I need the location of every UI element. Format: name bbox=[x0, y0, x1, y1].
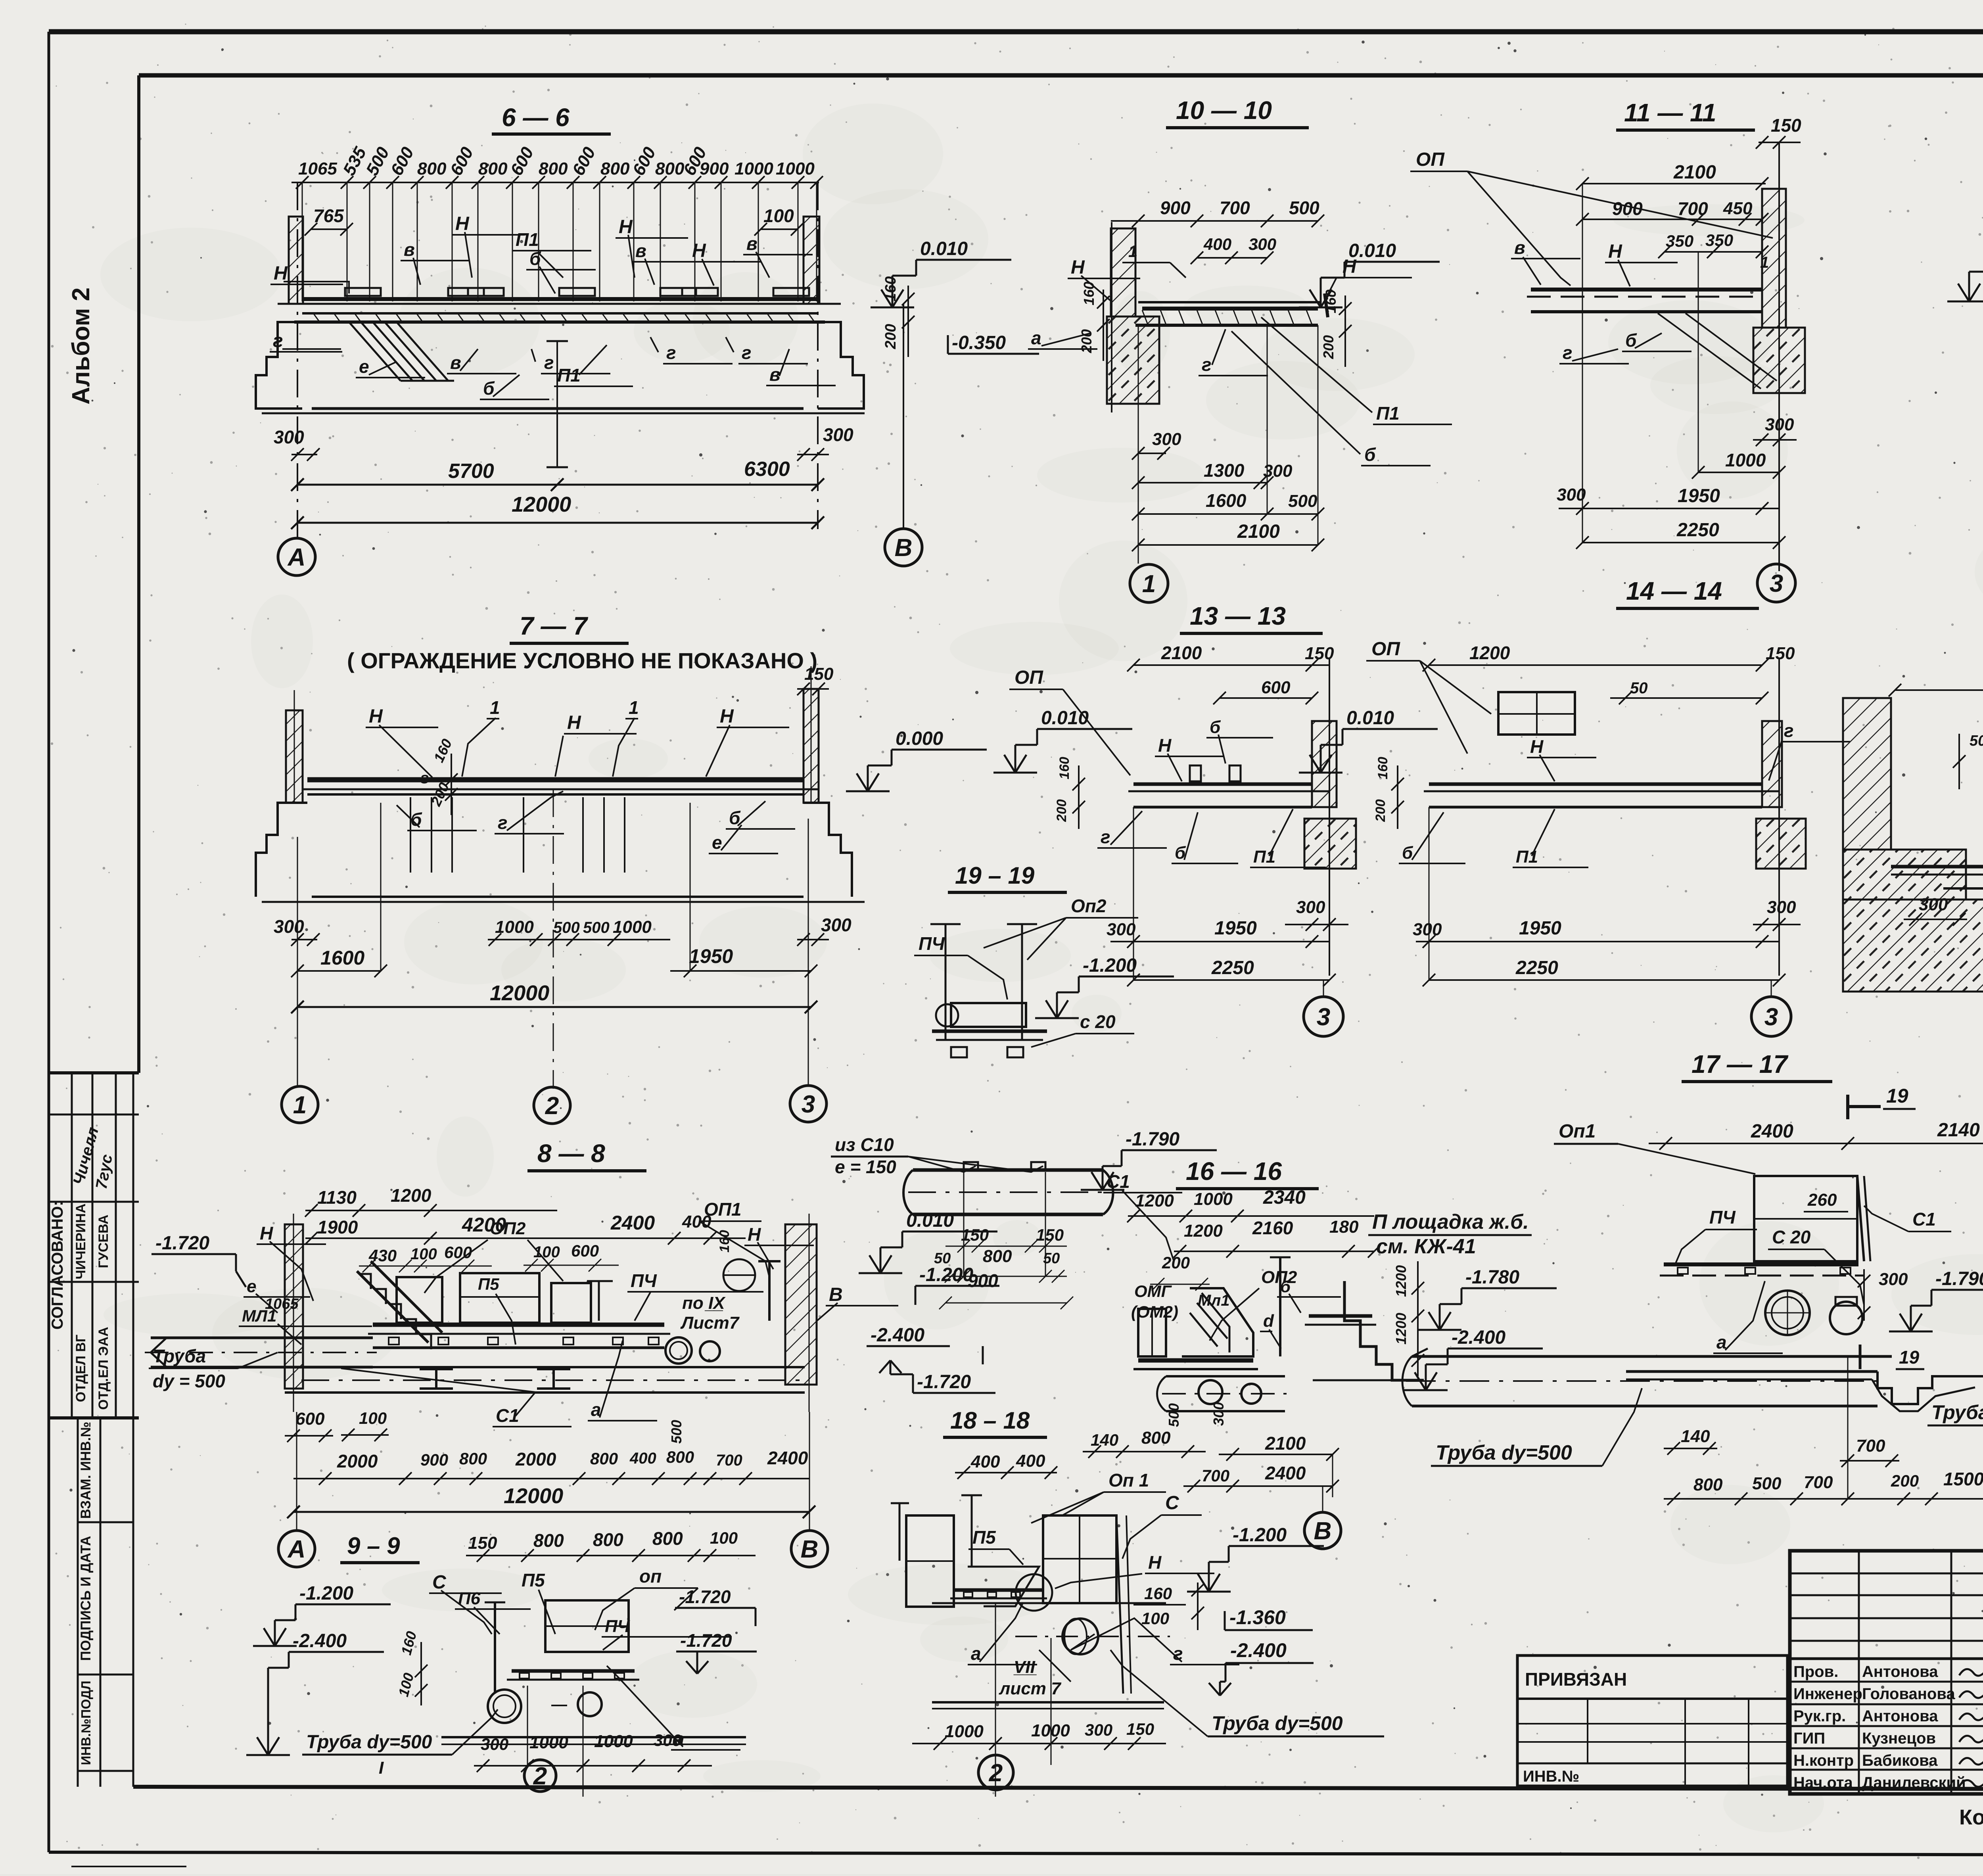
svg-text:1: 1 bbox=[1142, 570, 1156, 598]
svg-text:Труба: Труба bbox=[153, 1346, 206, 1366]
section 19-19 platform box bbox=[932, 1003, 1047, 1057]
section 8-8 truba label left bbox=[149, 1346, 278, 1391]
section 9-9 bottom dims bbox=[474, 1686, 712, 1797]
section 17-17 labels bbox=[1676, 1190, 1951, 1305]
section 9-9 tank box bbox=[545, 1600, 629, 1652]
section 10-10 platform bbox=[1135, 293, 1328, 325]
section 18-18 VII list7 bbox=[999, 1650, 1071, 1698]
svg-text:300: 300 bbox=[1557, 485, 1586, 504]
svg-text:150: 150 bbox=[961, 1226, 989, 1244]
section 13-13 bracket b bbox=[1190, 765, 1241, 781]
svg-text:160: 160 bbox=[1144, 1584, 1172, 1603]
svg-text:2400: 2400 bbox=[767, 1448, 808, 1468]
svg-text:500: 500 bbox=[1289, 198, 1319, 218]
svg-text:0.000: 0.000 bbox=[896, 728, 943, 749]
section 7-7 title bbox=[347, 612, 817, 673]
section 9-9 labels bbox=[429, 1566, 740, 1750]
section 18-18 160 100 dims bbox=[1133, 1583, 1204, 1630]
svg-text:1065: 1065 bbox=[298, 159, 337, 178]
svg-text:180: 180 bbox=[1329, 1217, 1359, 1237]
section 7-7 base slab bbox=[262, 897, 865, 902]
svg-text:-2.400: -2.400 bbox=[1230, 1639, 1287, 1661]
section 19-19 label c20 bbox=[1031, 1011, 1134, 1047]
section 17-17 pipe run and trench bbox=[1626, 1372, 1983, 1411]
section 9-9 pipes bbox=[488, 1690, 602, 1723]
section 17-17 19 mark lower bbox=[1860, 1345, 1924, 1369]
section 11-11 OP leader bbox=[1410, 149, 1773, 286]
stray scan line bottom left bbox=[71, 1866, 186, 1867]
svg-text:-0.350: -0.350 bbox=[952, 332, 1006, 353]
svg-text:2250: 2250 bbox=[1676, 520, 1719, 541]
section 8-8 I-beams bbox=[420, 1369, 570, 1389]
svg-text:в: в bbox=[404, 239, 415, 260]
svg-text:б: б bbox=[1210, 717, 1221, 737]
svg-text:1600: 1600 bbox=[320, 947, 364, 969]
svg-text:500: 500 bbox=[553, 919, 580, 936]
section 7-7 interior posts bbox=[410, 797, 625, 873]
section 6-6 right wall bbox=[804, 217, 819, 304]
svg-text:1950: 1950 bbox=[1678, 485, 1720, 506]
svg-text:150: 150 bbox=[1126, 1720, 1154, 1738]
privyazan small table bbox=[1517, 1655, 1787, 1786]
svg-text:300: 300 bbox=[1296, 898, 1325, 917]
svg-text:е: е bbox=[712, 832, 722, 853]
axis circle B section 18-18 bbox=[1304, 1512, 1341, 1549]
svg-text:г: г bbox=[273, 330, 283, 351]
svg-text:-1.200: -1.200 bbox=[299, 1583, 353, 1604]
section 13-13 platform bbox=[1128, 784, 1329, 807]
section 11-11 platform bbox=[1527, 290, 1762, 312]
svg-text:19: 19 bbox=[1886, 1085, 1908, 1107]
svg-text:200: 200 bbox=[882, 324, 899, 349]
svg-text:ГИП: ГИП bbox=[1793, 1730, 1825, 1747]
svg-text:100: 100 bbox=[359, 1409, 387, 1427]
svg-text:700: 700 bbox=[1202, 1466, 1229, 1485]
svg-text:С1: С1 bbox=[1107, 1171, 1130, 1192]
svg-text:1: 1 bbox=[490, 697, 500, 718]
svg-text:Пров.: Пров. bbox=[1793, 1663, 1838, 1680]
svg-text:10 — 10: 10 — 10 bbox=[1176, 96, 1272, 125]
section 17-17 deck bbox=[1660, 1264, 1864, 1276]
svg-text:1000: 1000 bbox=[1194, 1189, 1233, 1209]
section 6-6 dim 765 bbox=[305, 205, 353, 236]
svg-text:200: 200 bbox=[1054, 799, 1069, 822]
svg-text:1500: 1500 bbox=[1943, 1469, 1983, 1489]
section 6-6 elevation -0.350 bbox=[948, 332, 1039, 354]
svg-text:500: 500 bbox=[1288, 491, 1318, 511]
svg-text:А: А bbox=[287, 544, 306, 571]
section 17-17 long pipe dy500 bbox=[1402, 1348, 1884, 1406]
svg-text:14 — 14: 14 — 14 bbox=[1626, 577, 1722, 605]
svg-text:1200: 1200 bbox=[1469, 643, 1510, 663]
svg-text:600: 600 bbox=[1261, 678, 1291, 697]
section 6-6 top dimension chain bbox=[292, 144, 823, 301]
svg-text:2100: 2100 bbox=[1265, 1433, 1306, 1454]
svg-text:1065: 1065 bbox=[265, 1296, 299, 1312]
left sidebar table bbox=[49, 1073, 139, 1787]
svg-text:400: 400 bbox=[629, 1450, 656, 1467]
section 16-16 MLI label bbox=[1198, 1277, 1341, 1348]
svg-text:1000: 1000 bbox=[529, 1733, 568, 1752]
section 16-16 ploshchadka note bbox=[1368, 1210, 1532, 1258]
svg-text:г: г bbox=[420, 769, 429, 787]
svg-text:ОП1: ОП1 bbox=[704, 1199, 741, 1220]
axis circle 1 section 7-7 bbox=[282, 1086, 318, 1123]
svg-text:2250: 2250 bbox=[1515, 957, 1558, 978]
section 18-18 deck bbox=[932, 1590, 1166, 1603]
section 7-7 labels bbox=[366, 697, 795, 854]
svg-text:100: 100 bbox=[763, 205, 794, 226]
svg-text:-1.720: -1.720 bbox=[155, 1233, 209, 1254]
svg-text:700: 700 bbox=[1804, 1473, 1833, 1492]
section 13-13 top dims bbox=[1127, 643, 1334, 704]
svg-text:800: 800 bbox=[590, 1449, 618, 1468]
section 16-16 retaining steps bbox=[1313, 1281, 1424, 1380]
svg-text:3: 3 bbox=[1764, 1003, 1778, 1031]
section 19-19 small circle joint bbox=[936, 1004, 958, 1026]
svg-text:г: г bbox=[1101, 827, 1110, 847]
svg-text:В: В bbox=[829, 1284, 843, 1305]
svg-text:6 — 6: 6 — 6 bbox=[502, 103, 570, 132]
section 18-18 posts bbox=[891, 1495, 982, 1567]
section 19-19 bottom dims bbox=[934, 1172, 1073, 1309]
svg-text:160: 160 bbox=[1081, 282, 1097, 305]
svg-text:2000: 2000 bbox=[515, 1449, 556, 1469]
section 7-7 platform deck bbox=[302, 780, 818, 794]
svg-text:140: 140 bbox=[1091, 1431, 1118, 1449]
svg-text:100: 100 bbox=[1141, 1609, 1169, 1628]
svg-text:Н: Н bbox=[1148, 1552, 1162, 1573]
svg-text:800: 800 bbox=[600, 159, 630, 178]
section 14-14 labels bbox=[1399, 720, 1850, 867]
svg-text:600: 600 bbox=[571, 1241, 599, 1260]
svg-text:19 – 19: 19 – 19 bbox=[955, 862, 1035, 889]
svg-text:из С10: из С10 bbox=[835, 1134, 894, 1155]
svg-text:ПЧ: ПЧ bbox=[1709, 1207, 1736, 1228]
svg-text:Н: Н bbox=[567, 712, 581, 733]
svg-text:160: 160 bbox=[717, 1230, 732, 1253]
svg-text:е: е bbox=[247, 1277, 256, 1296]
svg-text:ПЧ: ПЧ bbox=[631, 1270, 657, 1291]
section 13-13 labels bbox=[1097, 717, 1326, 867]
section 13-13 wall bbox=[1304, 658, 1356, 976]
section 9-9 vdims 100 160 bbox=[395, 1629, 428, 1705]
section 18-18 ground lines bbox=[932, 1702, 1164, 1709]
svg-text:в: в bbox=[1514, 237, 1525, 258]
axis circle B section 16-16 bbox=[1304, 1512, 1341, 1549]
section 18-18 pipe circle bbox=[1015, 1619, 1170, 1654]
svg-text:200: 200 bbox=[1373, 799, 1388, 822]
svg-text:2: 2 bbox=[533, 1763, 547, 1790]
svg-text:-1.720: -1.720 bbox=[679, 1586, 731, 1607]
svg-text:1200: 1200 bbox=[391, 1185, 432, 1206]
svg-text:П5: П5 bbox=[522, 1570, 545, 1590]
svg-text:800: 800 bbox=[666, 1448, 694, 1466]
svg-text:1900: 1900 bbox=[317, 1217, 358, 1237]
svg-text:ОМГ: ОМГ bbox=[1134, 1282, 1172, 1301]
section 13-13 bottom dims bbox=[1107, 807, 1348, 986]
section 17-17 top dims bbox=[1649, 1120, 1983, 1150]
svg-text:17 — 17: 17 — 17 bbox=[1691, 1050, 1789, 1078]
svg-text:400: 400 bbox=[1016, 1451, 1045, 1471]
section 17-17 title bbox=[1682, 1050, 1832, 1082]
svg-text:-1.200: -1.200 bbox=[1233, 1525, 1287, 1546]
section 6-6 title bbox=[492, 103, 611, 134]
section 18-18 truba label bbox=[1110, 1650, 1384, 1736]
section 16-16 pipe below bbox=[1157, 1376, 1289, 1411]
section 6-6 platform deck bbox=[278, 288, 841, 322]
svg-text:Труба dу=500: Труба dу=500 bbox=[1436, 1441, 1572, 1464]
section 16-16 post op2 bbox=[1270, 1257, 1291, 1356]
section 7-7 left wall bbox=[286, 690, 303, 803]
section 10-10 bottom dims bbox=[1132, 325, 1324, 564]
title block texts bbox=[1793, 1567, 1983, 1855]
svg-text:300: 300 bbox=[1919, 895, 1948, 914]
section 11-11 bottom dims bbox=[1557, 184, 1797, 549]
section 8-8 bottom dims bbox=[285, 1409, 815, 1518]
section 9-9 truba label bbox=[302, 1709, 498, 1778]
svg-text:с 20: с 20 bbox=[1080, 1011, 1116, 1032]
svg-text:оп: оп bbox=[639, 1566, 662, 1586]
svg-text:300: 300 bbox=[274, 916, 304, 937]
svg-text:П лощадка ж.б.: П лощадка ж.б. bbox=[1372, 1210, 1529, 1233]
section 6-6 dim 100 right bbox=[754, 205, 804, 236]
svg-text:300: 300 bbox=[1879, 1270, 1908, 1289]
svg-text:( ОГРАЖДЕНИЕ УСЛОВНО НЕ ПОК: ( ОГРАЖДЕНИЕ УСЛОВНО НЕ ПОКАЗАНО ) bbox=[347, 648, 817, 673]
svg-text:Копировал: Коршунова: Копировал: Коршунова bbox=[1959, 1805, 1983, 1829]
axis circle B section 6-6 bbox=[885, 529, 922, 566]
svg-text:-1.360: -1.360 bbox=[1229, 1606, 1286, 1629]
svg-text:П1: П1 bbox=[1376, 403, 1400, 424]
section 17-17 mark 19 bbox=[1848, 1085, 1916, 1119]
section 8-8 po IX list7 bbox=[680, 1293, 740, 1333]
svg-text:1130: 1130 bbox=[317, 1187, 357, 1208]
svg-text:6300: 6300 bbox=[744, 458, 790, 481]
svg-text:2: 2 bbox=[989, 1759, 1003, 1787]
svg-text:1950: 1950 bbox=[689, 945, 733, 967]
svg-text:г: г bbox=[1202, 354, 1212, 375]
section 6-6 foundation steps left bbox=[256, 322, 302, 409]
svg-text:160: 160 bbox=[1323, 290, 1339, 313]
section 9-9 vertical post bbox=[485, 1602, 505, 1694]
section 18-18 detail circle bbox=[1016, 1574, 1052, 1611]
svg-text:800: 800 bbox=[655, 159, 685, 178]
section 8-8 right wall bbox=[785, 1214, 817, 1412]
svg-text:ПРИВЯЗАН: ПРИВЯЗАН bbox=[1525, 1669, 1627, 1690]
section 6-6 right side vdim 160 200 bbox=[882, 276, 915, 357]
axis circle A section 8-8 bbox=[278, 1531, 315, 1567]
svg-text:300: 300 bbox=[823, 424, 853, 445]
section 19-19 posts bbox=[930, 924, 1037, 1039]
section 10-10 title bbox=[1166, 96, 1309, 128]
section 15-15 vdims bbox=[1953, 733, 1983, 873]
svg-text:2250: 2250 bbox=[1211, 957, 1254, 978]
section 9-9 title bbox=[340, 1533, 420, 1563]
svg-text:Антонова: Антонова bbox=[1862, 1707, 1938, 1725]
svg-text:С: С bbox=[1165, 1492, 1179, 1513]
svg-text:800: 800 bbox=[1141, 1428, 1171, 1448]
section 18-18 top dims bbox=[955, 1451, 1057, 1479]
axis circle 2 section 18-18 bbox=[978, 1755, 1013, 1790]
svg-text:900: 900 bbox=[420, 1450, 448, 1469]
svg-text:12000: 12000 bbox=[490, 981, 549, 1005]
svg-text:1: 1 bbox=[629, 697, 639, 718]
section 10-10 vdims bbox=[1078, 282, 1352, 367]
svg-text:dу = 500: dу = 500 bbox=[153, 1371, 225, 1391]
svg-text:ЧИЧЕРИНА: ЧИЧЕРИНА bbox=[73, 1203, 88, 1279]
section 19-19 iz C10 label bbox=[831, 1134, 1043, 1177]
section 6-6 labels bbox=[270, 213, 836, 399]
svg-text:5700: 5700 bbox=[448, 460, 494, 483]
section 6-6 diagonal braces bbox=[349, 322, 454, 381]
svg-text:300: 300 bbox=[1248, 235, 1276, 253]
svg-text:800: 800 bbox=[533, 1530, 564, 1551]
svg-text:800: 800 bbox=[983, 1247, 1012, 1266]
svg-text:б: б bbox=[529, 248, 541, 269]
section 17-17 truba dy500 label bbox=[1431, 1388, 1642, 1466]
svg-text:200: 200 bbox=[1320, 335, 1337, 359]
svg-text:в: в bbox=[769, 364, 781, 385]
svg-text:160: 160 bbox=[1057, 757, 1072, 779]
svg-text:500: 500 bbox=[1752, 1474, 1782, 1493]
svg-text:по I̲X̲: по I̲X̲ bbox=[682, 1293, 726, 1313]
section 8-8 stair flight bbox=[357, 1261, 442, 1349]
svg-text:I: I bbox=[379, 1758, 384, 1778]
svg-text:V̲I̲I̲: V̲I̲I̲ bbox=[1013, 1657, 1037, 1677]
svg-text:г: г bbox=[666, 342, 676, 363]
section 15-15 floor slab bbox=[1891, 867, 1983, 896]
section 17-17 op1 leader bbox=[1554, 1121, 1755, 1174]
svg-text:Н: Н bbox=[1071, 257, 1085, 278]
section 14-14 vdims bbox=[1373, 757, 1404, 829]
section 18-18 op1 label bbox=[1031, 1470, 1166, 1523]
section 11-11 title bbox=[1616, 98, 1755, 130]
svg-text:200: 200 bbox=[1162, 1253, 1190, 1272]
svg-text:7 — 7: 7 — 7 bbox=[520, 612, 589, 640]
svg-text:500: 500 bbox=[668, 1420, 685, 1444]
svg-text:Голованова: Голованова bbox=[1862, 1685, 1955, 1703]
svg-text:Труба: Труба bbox=[1931, 1401, 1983, 1423]
svg-text:800: 800 bbox=[417, 159, 447, 178]
svg-text:300: 300 bbox=[274, 427, 304, 447]
svg-text:160: 160 bbox=[882, 276, 899, 301]
svg-text:а: а bbox=[1031, 328, 1041, 348]
svg-text:1200: 1200 bbox=[1393, 1265, 1409, 1297]
svg-text:г: г bbox=[742, 342, 752, 363]
svg-text:г: г bbox=[498, 812, 508, 833]
axis circle 3 section 7-7 bbox=[790, 1086, 827, 1122]
svg-text:ПОДПИСЬ И ДАТА: ПОДПИСЬ И ДАТА bbox=[78, 1536, 94, 1661]
svg-text:1200: 1200 bbox=[1135, 1191, 1174, 1210]
svg-text:Труба dу=500: Труба dу=500 bbox=[306, 1732, 432, 1753]
svg-text:900: 900 bbox=[1160, 198, 1191, 218]
section 15-15 lower wall blocks bbox=[1843, 850, 1983, 992]
svg-text:2140: 2140 bbox=[1937, 1120, 1980, 1141]
svg-text:2100: 2100 bbox=[1161, 643, 1202, 663]
svg-text:1200: 1200 bbox=[1393, 1313, 1409, 1345]
section 17-17 pipe circles bbox=[1765, 1291, 1862, 1335]
svg-text:С: С bbox=[432, 1572, 447, 1593]
svg-text:ОП: ОП bbox=[1371, 639, 1400, 660]
svg-text:700: 700 bbox=[1678, 198, 1708, 219]
svg-text:Н: Н bbox=[1530, 736, 1544, 757]
svg-text:150: 150 bbox=[804, 664, 834, 684]
svg-text:ОП: ОП bbox=[1416, 149, 1445, 170]
svg-text:В: В bbox=[1314, 1517, 1332, 1545]
svg-text:800: 800 bbox=[539, 159, 568, 178]
svg-text:П5: П5 bbox=[478, 1275, 499, 1293]
title block stamp table bbox=[1790, 1551, 1983, 1794]
svg-text:150: 150 bbox=[1766, 644, 1795, 663]
sidebar rotated captions bbox=[49, 1125, 116, 1765]
svg-text:d: d bbox=[1263, 1311, 1274, 1331]
svg-text:800: 800 bbox=[1693, 1475, 1723, 1494]
svg-text:В: В bbox=[801, 1536, 819, 1563]
section 6-6 foundation steps right bbox=[818, 322, 864, 409]
section 14-14 wall bbox=[1756, 658, 1806, 976]
svg-text:Нач.ота: Нач.ота bbox=[1793, 1774, 1853, 1792]
svg-text:Н: Н bbox=[260, 1223, 273, 1243]
section 7-7 vdim 200 160 bbox=[428, 737, 458, 815]
svg-text:б: б bbox=[1364, 444, 1376, 465]
svg-text:400: 400 bbox=[970, 1452, 1000, 1471]
section 15-15 labels bbox=[1904, 735, 1983, 952]
svg-text:Оп2: Оп2 bbox=[1071, 896, 1107, 916]
svg-text:300: 300 bbox=[1413, 920, 1442, 939]
svg-text:600: 600 bbox=[444, 1243, 472, 1262]
svg-text:в: в bbox=[746, 233, 758, 254]
section 8-8 deck bbox=[368, 1325, 670, 1348]
svg-text:1950: 1950 bbox=[1519, 918, 1561, 939]
section 10-10 labels bbox=[1028, 256, 1452, 466]
svg-text:Антонова: Антонова bbox=[1862, 1663, 1938, 1680]
svg-text:2340: 2340 bbox=[1263, 1187, 1306, 1208]
section 18-18 elevation -2.400 bbox=[1209, 1639, 1314, 1696]
svg-text:0.010: 0.010 bbox=[1041, 708, 1089, 729]
section 16-16 title bbox=[1176, 1157, 1319, 1189]
svg-text:16 — 16: 16 — 16 bbox=[1186, 1157, 1282, 1185]
svg-text:-1.790: -1.790 bbox=[1126, 1129, 1179, 1150]
svg-text:Бабикова: Бабикова bbox=[1862, 1752, 1938, 1769]
svg-text:Н: Н bbox=[1608, 241, 1622, 262]
svg-text:50: 50 bbox=[1970, 733, 1983, 749]
section 11-11 top dims bbox=[1576, 115, 1801, 271]
svg-text:Н.контр: Н.контр bbox=[1793, 1752, 1854, 1769]
svg-text:ОП: ОП bbox=[1015, 667, 1043, 688]
section 13-13 title bbox=[1180, 602, 1323, 633]
svg-text:ВЗАМ. ИНВ.№: ВЗАМ. ИНВ.№ bbox=[78, 1421, 94, 1519]
section 16-16 labels top bbox=[1103, 1171, 1297, 1341]
section 19-19 pipe bbox=[903, 1162, 1113, 1214]
section 19-19 PCh label bbox=[914, 933, 1007, 999]
svg-text:е: е bbox=[359, 356, 369, 377]
svg-text:С1: С1 bbox=[1912, 1209, 1936, 1230]
svg-text:140: 140 bbox=[1681, 1427, 1710, 1446]
svg-text:Мл1: Мл1 bbox=[1198, 1292, 1229, 1309]
section 6-6 left wall bbox=[289, 217, 303, 304]
svg-text:в: в bbox=[635, 240, 646, 261]
svg-text:1600: 1600 bbox=[1206, 490, 1247, 511]
svg-text:765: 765 bbox=[313, 205, 344, 226]
axis circle 2 section 9-9 bbox=[524, 1760, 556, 1792]
svg-text:Инженер: Инженер bbox=[1793, 1685, 1862, 1703]
svg-text:150: 150 bbox=[1771, 115, 1801, 136]
axis circle A section 6-6 bbox=[278, 538, 315, 575]
svg-text:ИНВ.№ПОДЛ: ИНВ.№ПОДЛ bbox=[79, 1681, 93, 1765]
svg-text:160: 160 bbox=[1375, 757, 1390, 779]
svg-text:2400: 2400 bbox=[610, 1212, 655, 1234]
svg-text:12000: 12000 bbox=[504, 1484, 563, 1508]
